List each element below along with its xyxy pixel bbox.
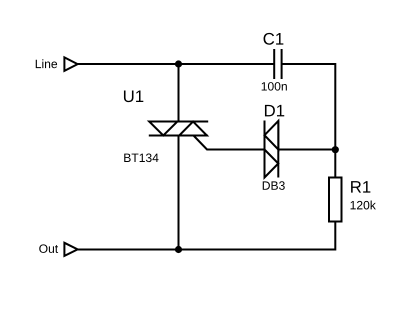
label Line xyxy=(36,59,57,68)
label Out xyxy=(39,244,58,253)
value 120k xyxy=(351,201,376,210)
triac U1 xyxy=(149,122,208,136)
wire Line to top junction xyxy=(78,63,179,65)
node junction top (Line/C1/U1) xyxy=(175,60,182,67)
wire triac MT1 down to bottom junction xyxy=(178,136,180,250)
wire C1 right plate to right rail corner xyxy=(282,63,336,65)
diac D1 xyxy=(265,121,279,178)
wire top junction to C1 left plate xyxy=(179,63,275,65)
value DB3 xyxy=(263,181,285,190)
wire diac to mid junction xyxy=(278,149,335,151)
label R1 xyxy=(351,181,370,193)
label D1 xyxy=(265,105,284,117)
label U1 xyxy=(124,90,143,102)
wire bottom junction to Out connector xyxy=(78,249,179,251)
wire R1 bottom to bottom-right corner xyxy=(179,222,336,250)
wire right rail down to mid junction xyxy=(334,63,336,150)
connector symbol Out xyxy=(64,243,77,256)
connector symbol Line xyxy=(64,57,77,71)
node junction mid (C1/D1/R1) xyxy=(332,146,339,153)
wire mid junction to R1 top xyxy=(334,150,336,178)
resistor R1 xyxy=(329,178,342,222)
capacitor C1 xyxy=(274,49,281,79)
node junction bottom (U1/Out/R1) xyxy=(175,246,182,253)
wire top junction down to triac MT2 xyxy=(178,64,180,122)
value BT134 xyxy=(124,154,158,163)
label C1 xyxy=(264,33,284,45)
value 100n xyxy=(262,82,287,91)
wire triac gate to diac D1 xyxy=(194,136,265,150)
